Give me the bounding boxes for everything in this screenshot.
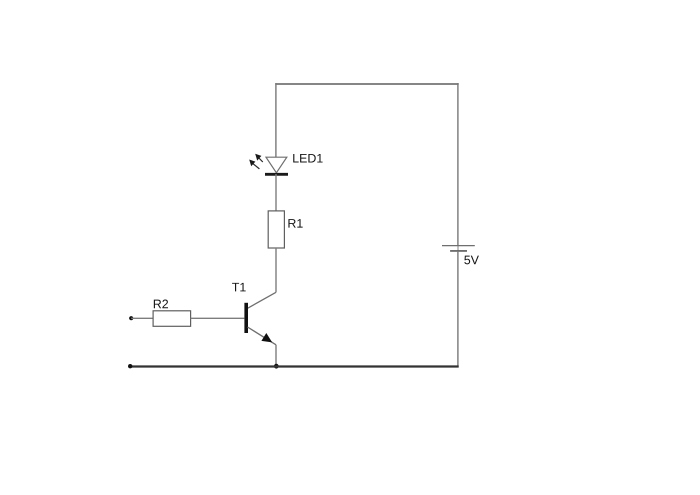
wire R1 to collector [275, 248, 277, 292]
resistor R2 [153, 311, 191, 327]
transistor T1 collector lead [248, 292, 277, 308]
wire emitter to ground rail [275, 345, 277, 366]
junction dot emitter/rail [274, 364, 279, 369]
wire ground rail [130, 365, 459, 367]
label T1 [232, 283, 246, 292]
wire left vertical to LED anode [275, 83, 277, 157]
terminal dot ground left [128, 364, 132, 368]
wire input to R2 [131, 317, 153, 319]
LED light arrow 2 [249, 160, 259, 169]
battery internal stem [457, 246, 459, 251]
label 5V [464, 256, 479, 265]
label LED1 [293, 154, 322, 163]
wire R2 to base [191, 317, 245, 319]
wire top rail [275, 83, 458, 85]
resistor R1 [268, 211, 284, 248]
label R1 [288, 219, 302, 228]
LED light arrow 1 [255, 154, 263, 162]
transistor T1 emitter arrow [261, 333, 272, 342]
terminal dot input [129, 316, 133, 320]
battery 5V positive plate [442, 245, 475, 247]
wire battery bottom lead [457, 251, 459, 367]
label R2 [154, 300, 168, 309]
wire LED cathode to R1 [275, 174, 277, 211]
transistor T1 emitter lead [248, 327, 277, 345]
LED LED1 body [265, 157, 288, 174]
wire right vertical battery top lead [457, 83, 459, 246]
transistor T1 base bar [244, 303, 248, 333]
battery 5V negative plate [450, 250, 467, 252]
